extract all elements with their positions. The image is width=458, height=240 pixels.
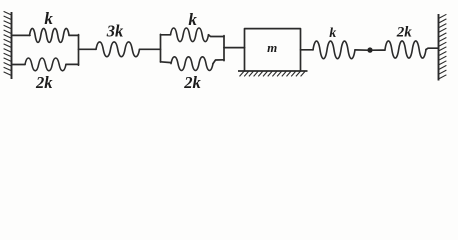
wire: spring k to bar 3 (stepped): [209, 35, 225, 37]
spring k (right of mass): [313, 41, 355, 59]
wire: spring 2k to bar: [66, 63, 79, 65]
svg-text:k: k: [188, 10, 197, 29]
ground (hatched support under mass): [238, 71, 308, 76]
wire: bar 3 to mass: [224, 47, 245, 49]
junction bar (pair 2 right): [223, 36, 225, 61]
spring k (top, parallel pair 2): [171, 28, 209, 42]
wire: bar 2 to spring 2k (pair 2 bottom): [161, 61, 172, 64]
node (junction dot between springs): [367, 47, 372, 52]
wire: spring 2k to bar 3 (stepped): [213, 60, 224, 64]
spring 2k (bottom, parallel pair 2): [171, 57, 213, 71]
junction bar (pair 1 right): [78, 35, 80, 66]
spring k (top-left, parallel pair 1): [30, 28, 70, 42]
svg-text:2k: 2k: [183, 73, 201, 92]
spring 2k (bottom-left, parallel pair 1): [25, 58, 66, 71]
svg-text:k: k: [44, 9, 53, 28]
wire: spring k to bar: [69, 34, 78, 36]
wire: spring k to node: [355, 49, 367, 51]
spring 2k (rightmost): [385, 41, 426, 58]
wire: spring 3k to bar 2: [140, 48, 161, 50]
svg-text:k: k: [329, 26, 336, 41]
wall (left fixed support): [4, 11, 12, 79]
wire: wall to spring 2k (bottom): [12, 64, 26, 66]
wire: mass to spring k (right): [301, 49, 314, 51]
wire: bar to spring 3k: [79, 48, 97, 50]
wall (right fixed support): [439, 14, 447, 81]
junction bar (pair 2 left): [160, 34, 162, 62]
svg-text:3k: 3k: [106, 22, 124, 41]
svg-text:2k: 2k: [396, 25, 413, 41]
mass m (block): [245, 29, 301, 71]
svg-text:2k: 2k: [35, 73, 53, 92]
wire: spring 2k to wall (stepped): [426, 48, 439, 49]
wire: bar 2 to spring k (pair 2 top): [161, 34, 171, 36]
wire: node to spring 2k: [373, 49, 385, 51]
wire: wall to spring k (top): [12, 34, 31, 36]
spring 3k (series middle): [96, 42, 140, 57]
svg-text:m: m: [267, 40, 277, 55]
